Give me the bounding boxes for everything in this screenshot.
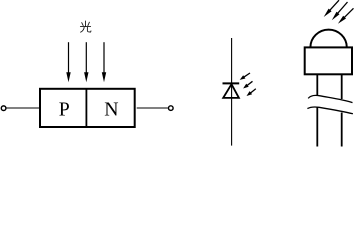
N region label bbox=[104, 99, 118, 121]
left terminal circle bbox=[1, 106, 6, 111]
light arrow S3 bbox=[247, 89, 256, 96]
right terminal circle bbox=[169, 106, 174, 111]
break mark upper bbox=[308, 95, 352, 102]
pin 2 lower bbox=[341, 113, 343, 147]
pin 2 upper bbox=[341, 75, 343, 99]
light label 光 bbox=[80, 21, 91, 32]
light arrow R3 bbox=[338, 8, 354, 23]
wire left lead bbox=[6, 107, 39, 109]
break mark lower bbox=[307, 107, 353, 114]
light arrow L1 bbox=[66, 42, 70, 82]
photodiode D1 cathode bar bbox=[223, 82, 240, 84]
light arrow S2 bbox=[243, 81, 252, 88]
svg-text:N: N bbox=[104, 99, 118, 121]
photodiode D1 triangle bbox=[223, 84, 239, 98]
package body bbox=[305, 47, 352, 74]
light arrow S1 bbox=[240, 73, 250, 80]
package dome lens bbox=[310, 30, 346, 48]
pin 1 upper bbox=[316, 75, 318, 96]
PN junction divider bbox=[85, 89, 87, 127]
pin 1 lower bbox=[316, 108, 318, 147]
wire anode (bottom) bbox=[231, 83, 233, 145]
wire right lead bbox=[137, 107, 168, 109]
PN junction body bbox=[40, 89, 135, 127]
light arrow L2 bbox=[84, 42, 88, 82]
P region label bbox=[59, 99, 70, 121]
light arrow L3 bbox=[102, 42, 106, 82]
wire cathode (top) bbox=[231, 38, 233, 83]
light arrow R1 bbox=[324, 0, 339, 17]
light arrow R2 bbox=[332, 2, 348, 20]
svg-text:P: P bbox=[59, 99, 70, 121]
